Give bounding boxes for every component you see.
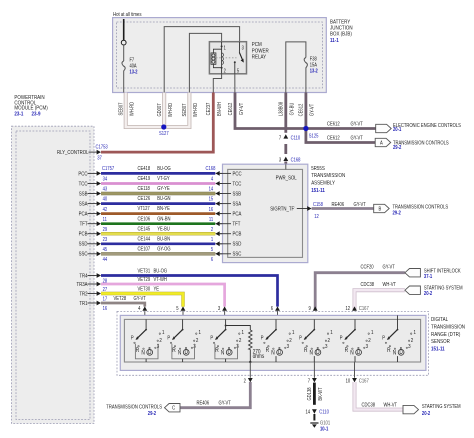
svg-text:CCF20: CCF20 <box>360 264 373 270</box>
5R55S pin label SSC <box>220 253 231 255</box>
DTR switch 5 (pin 9) <box>313 319 315 329</box>
svg-text:SSD: SSD <box>79 241 88 248</box>
svg-text:12: 12 <box>314 213 319 219</box>
svg-text:GD138: GD138 <box>307 387 313 400</box>
svg-text:R: R <box>345 347 349 354</box>
svg-text:S127: S127 <box>159 131 169 137</box>
wire VET28 GY-VT (TR1) <box>101 303 145 307</box>
svg-text:CE237: CE237 <box>206 102 212 115</box>
relay pin 5 <box>234 62 236 74</box>
svg-text:VET30: VET30 <box>138 286 151 292</box>
resistor 270 ohms <box>226 326 251 331</box>
svg-text:PWR_SOL: PWR_SOL <box>276 175 297 182</box>
svg-text:CE612: CE612 <box>327 121 340 127</box>
relay pin 2 <box>221 68 223 74</box>
svg-text:WH-RD: WH-RD <box>129 101 135 116</box>
svg-text:C1753: C1753 <box>96 144 109 150</box>
svg-text:45: 45 <box>103 247 108 253</box>
wire CE107 GY-OG (SSC) <box>101 252 215 255</box>
svg-text:CDC38: CDC38 <box>360 281 374 287</box>
svg-text:C110: C110 <box>291 135 301 141</box>
svg-text:BN-WH: BN-WH <box>217 102 223 116</box>
svg-text:2: 2 <box>328 338 331 345</box>
svg-text:2: 2 <box>289 338 292 345</box>
svg-text:SSD: SSD <box>232 241 241 248</box>
svg-text:29-2: 29-2 <box>148 410 157 416</box>
svg-text:ELECTRONIC ENGINE CONTROLS: ELECTRONIC ENGINE CONTROLS <box>393 123 461 129</box>
svg-text:13-2: 13-2 <box>130 69 138 75</box>
5R55S pin label PCC <box>220 172 231 174</box>
svg-text:BK-WT: BK-WT <box>318 387 324 400</box>
svg-text:40: 40 <box>103 196 108 202</box>
svg-text:20-2: 20-2 <box>422 411 431 417</box>
svg-text:GY-VT: GY-VT <box>354 201 366 207</box>
svg-text:1: 1 <box>199 330 202 337</box>
svg-text:R: R <box>172 347 176 354</box>
5R55S pin label SSA <box>220 203 231 205</box>
wire VET29 VT-WH (TR3A) <box>101 284 225 307</box>
svg-text:GD007: GD007 <box>157 103 163 116</box>
svg-text:7: 7 <box>308 378 311 384</box>
svg-text:N: N <box>393 350 397 357</box>
svg-text:CE418: CE418 <box>138 166 151 172</box>
svg-text:15: 15 <box>209 196 214 202</box>
svg-text:N: N <box>221 350 225 357</box>
svg-text:2: 2 <box>196 338 199 345</box>
svg-text:C167: C167 <box>359 378 369 384</box>
svg-text:R: R <box>136 347 140 354</box>
svg-text:RE406: RE406 <box>196 400 209 406</box>
svg-text:3: 3 <box>366 344 369 351</box>
connector arrow B transmission controls <box>374 204 390 212</box>
wire RE406 GY-VT to transmission controls C <box>180 382 250 408</box>
svg-text:1: 1 <box>162 330 165 337</box>
wire CE418 BU-OG (PCC) <box>101 172 215 175</box>
svg-text:Hot at all times: Hot at all times <box>113 12 142 19</box>
svg-text:2: 2 <box>244 378 247 384</box>
svg-text:PCC: PCC <box>232 171 242 178</box>
svg-text:CE612: CE612 <box>327 135 340 141</box>
wire VT127 BN-YE (PCA) <box>101 212 215 215</box>
5R55S pin SSA 16 <box>215 201 219 206</box>
svg-text:C1757: C1757 <box>102 166 115 172</box>
PCM power relay box <box>209 42 246 74</box>
svg-text:3: 3 <box>408 344 411 351</box>
wire GD138 BK-WT ground <box>313 383 316 405</box>
svg-text:C158: C158 <box>313 201 323 207</box>
wire CE419 VT-GY (TCC) <box>101 182 215 185</box>
relay pin2 wire to box edge <box>213 74 221 93</box>
svg-text:GY-VT: GY-VT <box>382 264 394 270</box>
svg-text:GY-VT: GY-VT <box>134 295 146 301</box>
pin PWR_SOL <box>285 164 287 169</box>
svg-text:SSC: SSC <box>232 251 241 258</box>
DTR switch 3 (pin 3) <box>225 319 227 329</box>
svg-text:WH-RD: WH-RD <box>193 102 199 117</box>
svg-text:YE-BU: YE-BU <box>157 226 170 232</box>
wire CE612 GY-VT to electronic engine controls <box>306 127 376 130</box>
svg-text:C110: C110 <box>319 409 329 415</box>
svg-text:2: 2 <box>239 338 242 345</box>
svg-text:5: 5 <box>176 305 179 311</box>
svg-text:P: P <box>167 335 170 341</box>
svg-text:2: 2 <box>368 338 371 345</box>
svg-text:14: 14 <box>305 409 310 415</box>
svg-text:15A: 15A <box>310 62 317 68</box>
5R55S pin label TCC <box>220 183 231 185</box>
5R55S pin label PCA <box>220 213 231 215</box>
wire CE106 GN-BN (TFT) <box>101 222 215 225</box>
svg-text:G101: G101 <box>320 420 330 426</box>
svg-text:37: 37 <box>97 155 102 161</box>
svg-text:R: R <box>387 347 391 354</box>
wire from F7 to box edge <box>123 71 125 93</box>
wire F38 feed loop <box>286 42 306 93</box>
wire CE612 GY-VT to transmission controls A <box>306 129 375 143</box>
svg-text:P: P <box>340 335 343 341</box>
wire CE612 GY-VT (from F38) <box>304 93 307 129</box>
svg-text:17: 17 <box>103 296 108 302</box>
wire CE126 BU-GN (SSA) <box>101 202 215 205</box>
svg-text:CE612: CE612 <box>227 102 233 115</box>
svg-text:B: B <box>379 206 382 212</box>
svg-text:27: 27 <box>103 287 108 293</box>
5R55S pin PCA 11 <box>215 211 219 216</box>
svg-text:GY-VT: GY-VT <box>350 135 362 141</box>
svg-text:12: 12 <box>345 305 350 311</box>
svg-text:151-11: 151-11 <box>311 188 325 195</box>
svg-text:6: 6 <box>271 305 274 311</box>
svg-text:F7: F7 <box>130 57 135 63</box>
5R55S pin TFT 2 <box>215 221 219 226</box>
svg-text:TCC: TCC <box>79 181 88 188</box>
5R55S transmission assembly box <box>223 164 308 262</box>
svg-text:PCA: PCA <box>232 211 242 218</box>
svg-text:TR1: TR1 <box>79 300 87 307</box>
svg-text:R: R <box>266 347 270 354</box>
wire CE237 BN-WH RLY_CONTROL <box>101 93 213 153</box>
svg-text:TRANSMISSION: TRANSMISSION <box>311 173 345 180</box>
svg-text:P: P <box>299 335 302 341</box>
svg-text:1: 1 <box>413 330 416 337</box>
connector C168 pin 3 <box>283 157 288 161</box>
DTR bottom pin 7 <box>313 362 315 378</box>
5R55S pin PCC 4 <box>215 171 219 176</box>
relay coil <box>211 53 216 64</box>
box backgrounds <box>113 18 327 93</box>
svg-text:SENSOR: SENSOR <box>431 339 450 346</box>
splice S127 <box>161 124 166 129</box>
svg-text:S125: S125 <box>309 133 319 139</box>
5R55S pin SSC 6 <box>215 251 219 256</box>
svg-text:L38B08: L38B08 <box>278 102 284 117</box>
svg-text:CE126: CE126 <box>138 196 151 202</box>
svg-text:PCB: PCB <box>232 231 241 238</box>
svg-text:CE145: CE145 <box>138 226 151 232</box>
svg-text:SSA: SSA <box>232 201 241 208</box>
svg-text:SSB: SSB <box>79 191 88 198</box>
svg-text:1: 1 <box>371 330 374 337</box>
svg-text:ohms: ohms <box>253 354 265 361</box>
DTR bottom pin 2 <box>249 362 251 378</box>
5R55S pin PCB 1 <box>215 231 219 236</box>
wire SEB07 WH-RD (relay contact feed) <box>164 93 190 128</box>
relay pin5 wire to box edge <box>234 74 236 93</box>
connector arrow starting system (bottom) <box>403 405 419 413</box>
connector arrow A transmission controls <box>375 138 391 146</box>
svg-text:CE118: CE118 <box>138 186 151 192</box>
connector arrow C transmission controls <box>165 404 181 412</box>
svg-text:42: 42 <box>103 206 108 212</box>
svg-text:DIGITAL: DIGITAL <box>431 317 448 324</box>
DTR switch 6 (pin 12) <box>354 319 356 329</box>
svg-text:N: N <box>350 350 354 357</box>
DTR pin 6 arrow <box>275 306 280 310</box>
svg-text:GY-YE: GY-YE <box>157 186 170 192</box>
svg-text:VET28: VET28 <box>114 295 127 301</box>
svg-text:GY-OG: GY-OG <box>157 246 171 252</box>
battery junction box (BJB) outline <box>117 22 323 88</box>
connector C110 pin 7 <box>283 134 288 138</box>
svg-text:P: P <box>261 335 264 341</box>
svg-text:VT-GY: VT-GY <box>157 176 170 182</box>
svg-text:29-2: 29-2 <box>393 144 402 150</box>
DTR switch 4 (pin 6) <box>275 319 277 329</box>
svg-text:N: N <box>141 350 145 357</box>
wire CE118 GY-YE (SSB) <box>101 192 215 195</box>
svg-text:16: 16 <box>103 306 108 312</box>
svg-text:3: 3 <box>325 344 328 351</box>
svg-text:151-11: 151-11 <box>431 346 445 353</box>
svg-text:BU-BN: BU-BN <box>157 236 170 242</box>
svg-text:TRANSMISSION CONTROLS: TRANSMISSION CONTROLS <box>393 140 449 146</box>
svg-text:RELAY: RELAY <box>252 54 267 61</box>
svg-text:3: 3 <box>218 305 221 311</box>
svg-text:4: 4 <box>138 305 141 311</box>
wire CDC38 WH-VT to starting system (bottom) <box>355 382 404 410</box>
svg-text:N: N <box>178 350 182 357</box>
5R55S pin TCC 14 <box>215 181 219 186</box>
wire CE612 GY-VT (relay output) <box>235 93 306 129</box>
svg-text:GY-VT: GY-VT <box>350 121 362 127</box>
svg-text:SEB07: SEB07 <box>182 103 188 116</box>
wire CDC38 WH-VT starting system (top) <box>355 290 405 310</box>
svg-text:SSA: SSA <box>79 201 88 208</box>
DTR switch 2 (pin 5) <box>182 319 184 329</box>
wire RE406 GY-VT (SIGRTN) <box>312 207 374 210</box>
svg-text:23-9: 23-9 <box>32 111 41 118</box>
wire SEB07 WH-RD (from F7) <box>126 93 164 128</box>
svg-text:WH-VT: WH-VT <box>382 281 396 287</box>
svg-text:CDC38: CDC38 <box>362 402 376 408</box>
relay pin 3 <box>238 42 240 53</box>
DTR pin 3 arrow <box>222 306 227 310</box>
svg-text:CE612: CE612 <box>298 103 304 116</box>
svg-text:2: 2 <box>411 338 414 345</box>
svg-text:STARTING SYSTEM: STARTING SYSTEM <box>422 404 461 410</box>
svg-text:TR2: TR2 <box>79 291 87 298</box>
svg-text:PCA: PCA <box>79 211 89 218</box>
svg-text:29-2: 29-2 <box>392 210 401 216</box>
svg-text:F38: F38 <box>310 56 317 62</box>
battery feed wire into F7 <box>123 19 125 40</box>
svg-text:23-1: 23-1 <box>14 111 23 118</box>
svg-text:RLY_CONTROL: RLY_CONTROL <box>57 150 89 157</box>
svg-text:ASSEMBLY: ASSEMBLY <box>311 180 335 187</box>
svg-text:BU-OG: BU-OG <box>157 166 171 172</box>
svg-text:1: 1 <box>211 236 214 242</box>
svg-text:11: 11 <box>103 216 108 222</box>
svg-text:R: R <box>215 347 219 354</box>
svg-text:P: P <box>131 335 134 341</box>
svg-text:23: 23 <box>103 236 108 242</box>
svg-text:VET31: VET31 <box>138 268 151 274</box>
svg-text:1: 1 <box>292 330 295 337</box>
svg-text:C168: C168 <box>291 157 301 163</box>
DTR pin 12 arrow / C167 <box>352 306 357 310</box>
svg-text:14: 14 <box>209 186 214 192</box>
5R55S pin label PCB <box>220 233 231 235</box>
splice S125 <box>303 126 308 131</box>
svg-text:3: 3 <box>279 157 282 163</box>
ground G101 <box>310 422 318 424</box>
svg-text:1: 1 <box>330 330 333 337</box>
5R55S pin SSD 5 <box>215 241 219 246</box>
svg-text:SIGRTN_TFˈ: SIGRTN_TFˈ <box>270 206 295 213</box>
svg-text:43: 43 <box>103 186 108 192</box>
wire F38 to box edge <box>305 68 307 93</box>
svg-text:CE107: CE107 <box>138 246 151 252</box>
wire VET31 BU-OG (TR4) <box>101 276 278 307</box>
svg-text:RE406: RE406 <box>332 201 345 207</box>
svg-text:GN-BN: GN-BN <box>157 216 170 222</box>
digital transmission range sensor box <box>117 311 429 375</box>
svg-text:11: 11 <box>209 216 214 222</box>
svg-text:TR4: TR4 <box>79 273 87 280</box>
svg-text:29: 29 <box>103 226 108 232</box>
svg-text:CE419: CE419 <box>138 176 151 182</box>
relay switch arm <box>239 53 242 61</box>
5R55S pin SSB 15 <box>215 191 219 196</box>
connector arrow starting system <box>405 286 421 294</box>
svg-text:SSC: SSC <box>79 251 88 258</box>
svg-text:C167: C167 <box>359 305 369 311</box>
connector arrow electronic engine controls <box>376 124 392 132</box>
svg-text:TRANSMISSION CONTROLS: TRANSMISSION CONTROLS <box>106 404 162 410</box>
svg-text:20-2: 20-2 <box>424 291 433 297</box>
svg-text:2: 2 <box>159 338 162 345</box>
fuse F38 15A <box>304 58 307 69</box>
svg-text:SSB: SSB <box>232 191 241 198</box>
wire CCF20 GY-VT shift interlock <box>315 273 405 311</box>
wire from terminal to fuse F7 <box>123 45 125 61</box>
svg-text:6: 6 <box>211 257 214 263</box>
fuse F7 40A <box>122 61 125 71</box>
svg-text:37-1: 37-1 <box>424 273 433 279</box>
svg-text:10: 10 <box>346 378 351 384</box>
svg-text:CE144: CE144 <box>138 236 151 242</box>
svg-text:N: N <box>271 350 275 357</box>
svg-text:11-1: 11-1 <box>330 37 339 44</box>
svg-text:C168: C168 <box>206 166 216 172</box>
svg-text:4: 4 <box>211 176 214 182</box>
svg-text:TCC: TCC <box>232 181 241 188</box>
svg-text:VT127: VT127 <box>138 206 151 212</box>
connector C110 pin 14 <box>312 409 317 413</box>
svg-text:TFT: TFT <box>232 221 240 228</box>
svg-text:5: 5 <box>211 247 214 253</box>
DTR pin 9 arrow <box>313 306 318 310</box>
5R55S pin label SSD <box>220 243 231 245</box>
svg-text:WH-VT: WH-VT <box>384 402 398 408</box>
DTR pin 4 arrow <box>142 306 147 310</box>
svg-text:P: P <box>382 335 385 341</box>
svg-text:TFT: TFT <box>80 221 88 228</box>
5R55S pin label SSB <box>220 193 231 195</box>
svg-text:40A: 40A <box>130 63 137 69</box>
svg-text:13-2: 13-2 <box>310 68 318 74</box>
5R55S pin label TFT <box>220 223 231 225</box>
svg-text:VT-WH: VT-WH <box>154 276 167 282</box>
svg-text:P: P <box>210 335 213 341</box>
svg-text:TRANSMISSION CONTROLS: TRANSMISSION CONTROLS <box>392 204 448 210</box>
svg-text:GY-VT: GY-VT <box>218 400 230 406</box>
DTR pin 5 arrow <box>181 306 186 310</box>
DTR switch 1 (pin 4) <box>145 319 147 329</box>
wire GD007 WH-RD (relay coil feed) <box>162 93 166 128</box>
svg-text:1: 1 <box>242 330 245 337</box>
svg-text:GY-BU: GY-BU <box>289 102 295 115</box>
svg-text:PCB: PCB <box>79 231 88 238</box>
DTR switch 7 <box>397 315 399 329</box>
svg-text:9: 9 <box>308 305 311 311</box>
wire CE145 YE-BU (PCB) <box>101 232 215 235</box>
battery terminal circle <box>121 40 126 45</box>
svg-text:TR3A: TR3A <box>76 281 88 288</box>
wire L38B08 GY-BU (PWR_SOL feed) <box>284 93 287 133</box>
svg-text:34: 34 <box>103 176 108 182</box>
svg-text:YE: YE <box>154 286 160 292</box>
relay coil-arm dashed link <box>216 57 237 59</box>
wire relay pin1 loop (to SEB07) <box>189 33 221 92</box>
svg-text:VET29: VET29 <box>138 276 151 282</box>
connector arrow shift interlock <box>405 269 421 277</box>
svg-text:TRANSMISSION: TRANSMISSION <box>431 324 465 331</box>
svg-text:WH-RD: WH-RD <box>168 102 174 117</box>
svg-text:CE106: CE106 <box>138 216 151 222</box>
svg-text:44: 44 <box>103 257 108 263</box>
wire VET30 YE (TR2) <box>101 294 183 307</box>
svg-text:N: N <box>310 350 314 357</box>
svg-text:16: 16 <box>209 206 214 212</box>
svg-text:2: 2 <box>211 226 214 232</box>
svg-text:GY-VT: GY-VT <box>309 104 315 116</box>
DTR bottom pin 10 / C167 <box>354 362 356 378</box>
svg-text:RANGE (DTR): RANGE (DTR) <box>431 331 461 338</box>
wire CE144 BU-BN (SSD) <box>101 242 215 245</box>
svg-text:BU-GN: BU-GN <box>157 196 170 202</box>
wire relay pin3 loop (to GD007) <box>164 27 239 93</box>
svg-text:20-1: 20-1 <box>393 127 402 133</box>
svg-text:BU-OG: BU-OG <box>154 268 168 274</box>
svg-text:SEB07: SEB07 <box>118 102 124 115</box>
svg-text:BN-YE: BN-YE <box>157 206 170 212</box>
svg-text:R: R <box>304 347 308 354</box>
relay pin 1 <box>221 42 223 47</box>
svg-text:3: 3 <box>287 344 290 351</box>
svg-text:GY-VT: GY-VT <box>238 103 244 115</box>
svg-text:PCC: PCC <box>78 171 88 178</box>
